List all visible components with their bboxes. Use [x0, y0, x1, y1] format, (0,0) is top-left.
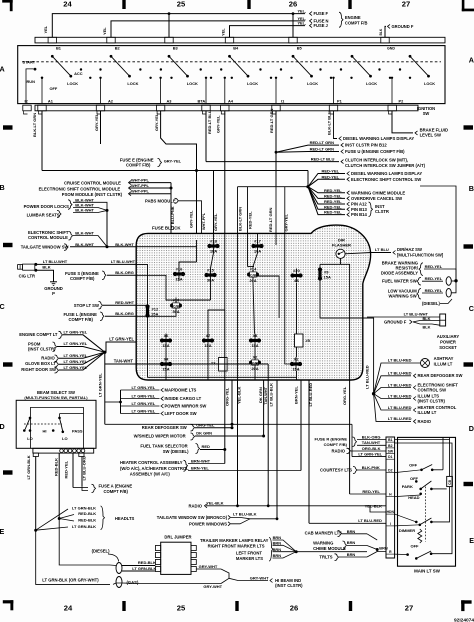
fuse #17 [257, 239, 259, 253]
fuse #15 [210, 268, 212, 282]
svg-text:#20: #20 [293, 268, 300, 273]
arrow BRAKE FLUID LEVEL SW [415, 131, 418, 135]
svg-text:YEL,: YEL, [298, 22, 306, 26]
wire A4 GRY-YEL down [224, 111, 226, 234]
svg-text:15A: 15A [324, 275, 331, 280]
svg-text:DK GRN: DK GRN [196, 431, 212, 436]
svg-text:TAN-WHT: TAN-WHT [362, 440, 381, 445]
fuse #1 [295, 357, 297, 371]
wire col 268 TAN-WHT inside [136, 363, 268, 365]
svg-text:POWER: POWER [440, 340, 456, 345]
main lt sw internal pin feed [395, 439, 450, 441]
wire RED-LT GRN to INST CLSTR PIN B12 [276, 145, 339, 152]
svg-text:OFF: OFF [409, 462, 418, 467]
svg-text:DIESEL WARNING LAMPS DISPLAY: DIESEL WARNING LAMPS DISPLAY [343, 136, 414, 141]
right edge dash marks [464, 125, 474, 129]
svg-text:24: 24 [63, 0, 72, 9]
svg-text:BLK-WHT: BLK-WHT [75, 208, 94, 213]
svg-text:FUSE BLOCK: FUSE BLOCK [152, 225, 181, 230]
svg-text:LOCK: LOCK [127, 81, 138, 86]
wire fuel tank drop [224, 310, 226, 464]
svg-text:STOP LT SW: STOP LT SW [74, 303, 99, 308]
svg-text:LOCK: LOCK [187, 81, 198, 86]
arrow DIESEL WARNING LAMPS DISPLAY [339, 137, 342, 141]
svg-text:LEFT DOOR SW: LEFT DOOR SW [165, 411, 197, 416]
svg-text:LOCK: LOCK [366, 81, 377, 86]
main lt sw connector strip [386, 437, 395, 558]
svg-text:RED-YEL: RED-YEL [324, 204, 342, 209]
svg-text:15A: 15A [251, 343, 258, 348]
wire FUSE E GRY-YEL [42, 170, 308, 172]
svg-text:START: START [23, 60, 36, 65]
svg-text:RADIO: RADIO [418, 419, 432, 424]
brace INST CLSTR pins [369, 202, 373, 217]
wire fan node down to long bus [104, 352, 106, 424]
svg-text:FUSE J: FUSE J [314, 23, 328, 28]
svg-text:B4: B4 [233, 46, 239, 51]
svg-text:LT GRN-YEL: LT GRN-YEL [64, 329, 88, 334]
svg-text:D1: D1 [388, 455, 392, 459]
svg-text:DRL JUMPER: DRL JUMPER [164, 535, 191, 540]
svg-text:INSIDE CARGO LT: INSIDE CARGO LT [165, 396, 202, 401]
fuse #18 [213, 239, 215, 253]
svg-text:WARNING CHIME MODULE: WARNING CHIME MODULE [351, 190, 405, 195]
beam select lever [60, 418, 63, 432]
svg-text:15A: 15A [162, 367, 169, 372]
svg-text:PIN B14: PIN B14 [351, 212, 367, 217]
arrow FUSE J [310, 24, 313, 28]
svg-text:CIG LTR: CIG LTR [19, 274, 35, 279]
svg-text:D: D [469, 424, 474, 433]
svg-text:COMPT F/B): COMPT F/B) [104, 489, 129, 494]
svg-text:YEL: YEL [102, 27, 107, 35]
wire A4 column through block to fuel tank [224, 234, 226, 311]
svg-text:RED-LT GRN: RED-LT GRN [310, 140, 334, 145]
wire ORG-YEL right drop [349, 380, 351, 494]
node FUSE E / A3 [195, 169, 198, 172]
wire RED-LT BLU clutch interlock [206, 161, 276, 163]
wire B5 feed drop [292, 14, 294, 37]
wire TAN-WHT to fuse block [105, 363, 136, 365]
wire I2 riser to START contact [26, 69, 34, 104]
svg-text:ILLUM LT: ILLUM LT [418, 410, 437, 415]
fuse #12 [147, 302, 149, 320]
svg-text:WARNING SW: WARNING SW [389, 294, 417, 299]
fuse #20 [296, 269, 298, 283]
svg-text:FUEL TANK SELECTOR: FUEL TANK SELECTOR [140, 443, 187, 448]
ignition switch terminal risers [41, 78, 43, 104]
wire P1 BLK-LT BLU to diesel warning display [334, 111, 338, 139]
svg-text:A3: A3 [167, 98, 173, 103]
svg-text:LT GRN-BLK: LT GRN-BLK [132, 566, 156, 571]
svg-text:LT BLU-BLK: LT BLU-BLK [269, 383, 274, 407]
svg-text:D: D [0, 422, 5, 431]
ignition switch upper connector strip [35, 37, 445, 43]
ground P symbol [50, 281, 57, 283]
svg-text:LT GRN-YEL: LT GRN-YEL [98, 373, 103, 397]
svg-text:RED-LT BLU: RED-LT BLU [311, 156, 335, 161]
wire LT GRN-BLK from beam select [35, 457, 37, 531]
svg-text:B2: B2 [115, 46, 121, 51]
svg-text:TRLTS: TRLTS [319, 555, 332, 560]
svg-text:RED-YEL: RED-YEL [362, 489, 380, 494]
svg-text:27: 27 [402, 0, 410, 9]
svg-text:RED-YEL: RED-YEL [324, 193, 342, 198]
ignition switch body U1 [18, 46, 445, 104]
wire LT BLU-WHT to aux socket [367, 316, 440, 318]
svg-text:CRUISE CONTROL MODULE: CRUISE CONTROL MODULE [64, 180, 121, 185]
svg-text:30A: 30A [172, 309, 179, 314]
svg-text:WHT-PPL: WHT-PPL [131, 183, 150, 188]
node RED-YEL fan [306, 185, 309, 188]
svg-text:GROUND F: GROUND F [392, 24, 414, 29]
svg-text:BLK-ORG: BLK-ORG [362, 434, 381, 439]
svg-text:BLK-ORG: BLK-ORG [115, 270, 134, 275]
svg-text:TAN-WHT: TAN-WHT [114, 359, 134, 364]
svg-text:AUXILIARY: AUXILIARY [437, 334, 460, 339]
fuse cavity #5 empty [295, 334, 304, 347]
svg-text:27: 27 [405, 604, 413, 613]
splice oval fuel water [446, 277, 451, 286]
circuit breaker #2 [254, 355, 256, 371]
svg-text:CAB MARKER LTS: CAB MARKER LTS [305, 531, 343, 536]
svg-text:BLK-WHT: BLK-WHT [75, 242, 94, 247]
wire GRY-WHT from DRL jumper right 1 [196, 568, 221, 570]
svg-text:MAP/DOME LTS: MAP/DOME LTS [165, 387, 197, 392]
main lt sw pin stubs into box [395, 470, 422, 473]
svg-text:RED-YEL: RED-YEL [322, 169, 340, 174]
wire RED-BLK down to DRL region [59, 519, 110, 566]
svg-text:TAN-WHT: TAN-WHT [264, 386, 268, 404]
page frame crop mark bottom-right [461, 600, 471, 603]
svg-text:(DIESEL): (DIESEL) [92, 549, 111, 554]
svg-text:(MULTI-FUNCTION SW, PARTIAL): (MULTI-FUNCTION SW, PARTIAL) [24, 395, 88, 400]
svg-text:#7: #7 [206, 333, 211, 338]
svg-text:YEL-BLK: YEL-BLK [237, 387, 242, 404]
wire inside block LT BLU-WHT to #16 column [136, 264, 147, 302]
wire RED-YEL to INST CLSTR PIN A15 [308, 187, 345, 204]
page frame crop mark top-left [2, 0, 13, 3]
svg-text:RED: RED [202, 444, 211, 449]
wire ORG-YEL drop to rear defogger [231, 380, 233, 428]
svg-text:LT BLU-WHT: LT BLU-WHT [111, 259, 136, 264]
svg-text:COMPT F/B): COMPT F/B) [69, 317, 94, 322]
wire #6 bottom to #4 [165, 348, 167, 358]
svg-text:RIGHT FRONT MARKER LTS: RIGHT FRONT MARKER LTS [208, 543, 265, 548]
svg-text:PARK: PARK [402, 484, 413, 489]
svg-text:GRY-YEL: GRY-YEL [154, 113, 159, 131]
wire LT BLU-RED to HEATER CONTROL ILLUM LT [374, 394, 411, 410]
svg-text:C: C [0, 302, 5, 311]
svg-text:BRN: BRN [273, 540, 282, 545]
wire inside block FUSE S line [136, 275, 206, 300]
wire A3 GRY-YEL down [161, 111, 197, 171]
svg-text:BLK: BLK [423, 324, 431, 329]
svg-text:LOCK: LOCK [307, 81, 318, 86]
svg-text:25: 25 [177, 604, 186, 613]
svg-text:LT GRN-YEL: LT GRN-YEL [64, 365, 88, 370]
wire FUSE A brace [92, 484, 96, 492]
svg-text:SW (DIESEL): SW (DIESEL) [163, 449, 189, 454]
main lt sw dashed link [425, 487, 427, 542]
fuse #4 [165, 357, 167, 371]
svg-text:LT BLU-RED: LT BLU-RED [388, 393, 412, 398]
svg-text:LT BLU-ORG: LT BLU-ORG [82, 456, 87, 480]
svg-text:TRAILER MARKER LAMPS RELAY: TRAILER MARKER LAMPS RELAY [200, 538, 269, 543]
node headlts lt grn-blk [34, 529, 37, 532]
svg-text:LUMBAR SEATS: LUMBAR SEATS [27, 213, 60, 218]
wire LT BLU-RED to REAR DEFOGGER SW [374, 376, 411, 394]
svg-text:D2: D2 [388, 469, 392, 473]
svg-text:POWER WINDOWS: POWER WINDOWS [189, 521, 227, 526]
page frame crop mark bottom-left [3, 600, 14, 603]
svg-text:GROUND F: GROUND F [384, 319, 407, 324]
svg-text:MARKER LTS: MARKER LTS [236, 556, 263, 561]
svg-text:WHT-PPL: WHT-PPL [131, 189, 150, 194]
svg-text:OVERDRIVE CANCEL SW: OVERDRIVE CANCEL SW [351, 196, 402, 201]
svg-text:RIGHT DOOR SW: RIGHT DOOR SW [21, 367, 56, 372]
svg-text:HI BEAM IND: HI BEAM IND [275, 578, 301, 583]
svg-text:ENGINE COMPT LT: ENGINE COMPT LT [19, 332, 58, 337]
fuse #7 [207, 334, 209, 348]
svg-text:YEL,: YEL, [298, 10, 306, 14]
svg-text:ILLUM LT: ILLUM LT [434, 361, 453, 366]
node rear defogger [231, 426, 234, 429]
svg-text:SOCKET: SOCKET [439, 345, 457, 350]
wire inside block tailgate BLK-WHT [136, 246, 196, 248]
wire RED-YEL to OVERDRIVE CANCEL SW [308, 187, 345, 199]
svg-text:BLK-PNK: BLK-PNK [362, 465, 380, 470]
wire inside block STOP LT to #12 [136, 304, 147, 306]
wire RED-LT GRN to FUSE U [276, 151, 339, 154]
wire RED-YEL to pin H [350, 493, 386, 495]
svg-text:BRN: BRN [347, 529, 356, 534]
svg-text:BRN: BRN [273, 547, 282, 552]
svg-text:POWER DOOR LOCKS: POWER DOOR LOCKS [24, 204, 70, 209]
wire LT BLU to DIR/HAZ SW [345, 253, 371, 254]
wire headlight LT GRN-BLK 2 [36, 527, 68, 530]
wire PSOM riser into block [170, 188, 172, 240]
svg-text:FUEL WATER SW: FUEL WATER SW [382, 278, 417, 283]
svg-text:REAR DEFOGGER SW: REAR DEFOGGER SW [142, 425, 187, 430]
wire col 276 RED-LT GRN into block [275, 187, 277, 245]
svg-text:LT GRN-YEL: LT GRN-YEL [109, 337, 134, 342]
wire A1 BLK-LT GRN down to FUSE E line [41, 111, 43, 171]
wire GND to GROUND F [385, 26, 386, 37]
svg-text:B2: B2 [388, 444, 392, 448]
wire RED-YEL to DIESEL WARNING LAMPS DISPLAY 2 [308, 174, 345, 187]
node WHT-PPL [170, 187, 173, 190]
svg-text:GRY-WHT: GRY-WHT [199, 564, 218, 569]
svg-text:LT BLU-RED: LT BLU-RED [358, 518, 382, 523]
svg-text:P: P [52, 291, 55, 296]
svg-text:CONTROL SW: CONTROL SW [418, 388, 447, 393]
svg-text:LT GRN-BLK: LT GRN-BLK [72, 505, 96, 510]
bottom ruler ticks [122, 601, 125, 611]
dimmer rheostat [418, 529, 422, 543]
svg-text:BLK-ORG: BLK-ORG [115, 311, 134, 316]
svg-text:LT GRN-YEL: LT GRN-YEL [64, 359, 88, 364]
wire LT GRN-YEL to INSIDE CARGO LT [121, 398, 160, 400]
svg-text:BRN: BRN [273, 553, 282, 558]
svg-text:HDN: HDN [387, 510, 395, 514]
svg-text:LOCK: LOCK [67, 81, 78, 86]
svg-text:RED-BLK: RED-BLK [78, 511, 96, 516]
svg-text:CLSTR: CLSTR [375, 209, 389, 214]
svg-text:DIR/HAZ SW: DIR/HAZ SW [397, 247, 422, 252]
wire YEL-BLK radio bottom [206, 505, 386, 507]
node BLK-WHT bus top [106, 209, 109, 212]
svg-text:DIMMER: DIMMER [399, 528, 415, 533]
svg-text:BLK-LT BLU: BLK-LT BLU [327, 111, 332, 135]
main lt sw contacts mid [415, 521, 418, 524]
svg-text:DIODE ASSEMBLY: DIODE ASSEMBLY [381, 271, 418, 276]
svg-text:POWER MIRROR SW: POWER MIRROR SW [165, 403, 207, 408]
svg-text:FUSE F: FUSE F [314, 11, 329, 16]
svg-text:LT GRN-YEL: LT GRN-YEL [132, 385, 156, 390]
svg-text:RED-BLK: RED-BLK [138, 560, 156, 565]
fuse #8 [254, 334, 256, 348]
svg-text:LT BLU-RED: LT BLU-RED [388, 371, 412, 376]
svg-text:RED-YEL: RED-YEL [248, 211, 253, 229]
svg-text:RED-YEL: RED-YEL [425, 264, 443, 269]
wire LT GRN-BLK down to bottom bus [36, 530, 110, 584]
svg-text:#6: #6 [164, 333, 169, 338]
svg-text:SW: SW [423, 111, 430, 116]
wire LT GRN-YEL to pin D1 [352, 456, 386, 458]
svg-text:YEL: YEL [43, 25, 48, 33]
svg-text:LT GRN-YEL: LT GRN-YEL [64, 353, 88, 358]
svg-text:P2: P2 [399, 98, 405, 103]
wire RED-YEL to INST CLSTR PIN B14 [308, 187, 345, 215]
wire YEL-BLK drop [237, 380, 239, 506]
svg-text:GRY-YEL: GRY-YEL [216, 115, 221, 133]
wire I1 RED-LT GRN down [275, 111, 277, 152]
svg-text:ASSEMBLY (W/ A/C): ASSEMBLY (W/ A/C) [130, 472, 171, 477]
wire bus for map/dome fan [120, 390, 122, 414]
node radio yel-blk 1 [236, 504, 239, 507]
circuit breaker #10 [175, 298, 177, 314]
svg-text:C: C [469, 304, 474, 313]
svg-text:RED-WHT: RED-WHT [115, 300, 134, 305]
svg-text:LT BLU-RED: LT BLU-RED [365, 365, 370, 389]
node headlts red-blk [58, 517, 61, 520]
svg-text:COURTESY LTS: COURTESY LTS [320, 467, 352, 472]
node tailgate power windows [276, 517, 279, 520]
wire BRN-YEL drop [300, 380, 302, 471]
svg-text:LO: LO [62, 436, 68, 441]
svg-text:FUSE R (ENGINE: FUSE R (ENGINE [315, 437, 348, 442]
svg-text:C/B: C/B [173, 304, 180, 308]
svg-text:COMPT F/B: COMPT F/B [345, 21, 368, 26]
svg-text:BLK-WHT: BLK-WHT [75, 231, 94, 236]
wire YEL feed to FUSE N [111, 21, 305, 37]
wire BLK-WHT tailgate [70, 246, 137, 248]
svg-text:LT BLU: LT BLU [375, 247, 389, 252]
svg-text:ELECTRONIC SHIFT CONTROL SW: ELECTRONIC SHIFT CONTROL SW [351, 177, 421, 182]
svg-text:TAILGATE WINDOW SW (BRONCO): TAILGATE WINDOW SW (BRONCO) [157, 515, 228, 520]
wire BLK-WHT elec shift [73, 236, 107, 247]
svg-text:20A: 20A [249, 278, 256, 283]
page frame crop mark top-right [462, 0, 465, 11]
node radio yel-blk 2 [267, 504, 270, 507]
svg-text:BRN-WHT: BRN-WHT [191, 458, 211, 463]
svg-text:4A: 4A [294, 278, 299, 283]
svg-text:RED-YEL: RED-YEL [425, 288, 443, 293]
svg-text:LT GRN-YEL: LT GRN-YEL [132, 401, 156, 406]
fuse #16 [178, 267, 180, 281]
wire BRN fan to main bus [296, 551, 367, 553]
arrow FUSE N [310, 19, 313, 23]
svg-text:26: 26 [290, 604, 298, 613]
svg-text:BRN: BRN [273, 535, 282, 540]
svg-text:LOCK: LOCK [247, 81, 258, 86]
svg-text:B1: B1 [388, 438, 392, 442]
svg-text:LO: LO [27, 436, 33, 441]
wire BLK from cig ltr to ground P [36, 270, 54, 282]
svg-text:HI: HI [43, 429, 47, 434]
svg-text:LT BLU-RED: LT BLU-RED [388, 405, 412, 410]
wire BRN to R pin [377, 550, 386, 552]
svg-text:PASS: PASS [72, 429, 83, 434]
svg-text:A1: A1 [48, 98, 54, 103]
svg-text:ASHTRAY: ASHTRAY [434, 356, 454, 361]
svg-text:TAILGATE WINDOW SW: TAILGATE WINDOW SW [21, 244, 69, 249]
wire A3 junction down into fuse block [196, 171, 198, 241]
oval splice DIESEL [116, 563, 122, 574]
svg-text:RED-YEL: RED-YEL [64, 460, 69, 478]
oval splice GAS [116, 577, 122, 588]
wire inside block col 260 [257, 233, 259, 239]
ignition switch dashed common line [22, 61, 441, 63]
svg-text:BLK: BLK [423, 316, 431, 321]
svg-text:LEFT FRONT: LEFT FRONT [236, 551, 262, 556]
svg-text:COMPT F/B): COMPT F/B) [126, 163, 151, 168]
beam select dashed line [24, 423, 62, 425]
svg-text:ORG-YEL: ORG-YEL [342, 386, 347, 405]
P2 connector tab [388, 105, 396, 111]
wire LT BLU-RED drop [308, 380, 310, 523]
wire LT BLU-RED to ILLUM LTS INST CLSTR [374, 394, 411, 399]
svg-text:LEVEL SW: LEVEL SW [420, 133, 441, 138]
node fuel tank [223, 448, 226, 451]
svg-text:FUSE U (ENGINE COMPT F/B): FUSE U (ENGINE COMPT F/B) [345, 149, 405, 154]
wire #12 down [147, 320, 149, 377]
beam select connector strip [33, 448, 94, 453]
beam select lower tabs [33, 453, 38, 456]
svg-text:E: E [469, 536, 474, 545]
svg-text:BRN: BRN [379, 546, 388, 551]
svg-text:24: 24 [64, 604, 73, 613]
svg-text:YEL,: YEL, [298, 17, 306, 21]
svg-text:P1: P1 [337, 98, 343, 103]
wire P2 to brake fluid level switch [392, 111, 413, 133]
svg-text:#18: #18 [210, 238, 217, 243]
svg-text:(DIESEL): (DIESEL) [422, 301, 441, 306]
svg-text:BLK-LT GRN: BLK-LT GRN [238, 207, 243, 231]
svg-text:INST CLSTR PIN B12: INST CLSTR PIN B12 [345, 143, 387, 148]
wire LT GRN-YEL fan to fuse block [105, 342, 166, 352]
svg-text:25: 25 [177, 0, 186, 9]
svg-text:LT GRN-YEL: LT GRN-YEL [358, 452, 382, 457]
svg-text:(GAS): (GAS) [127, 580, 139, 585]
svg-text:(INST CLSTR): (INST CLSTR) [28, 347, 56, 352]
wire YEL feed to FUSE J [230, 26, 306, 37]
svg-text:COMPT F/B): COMPT F/B) [324, 442, 348, 447]
svg-text:A: A [0, 65, 5, 74]
svg-text:ELECTRONIC SHIFT CONTROL MODUL: ELECTRONIC SHIFT CONTROL MODULE [39, 187, 121, 192]
wire TAN-WHT drop [267, 380, 269, 506]
